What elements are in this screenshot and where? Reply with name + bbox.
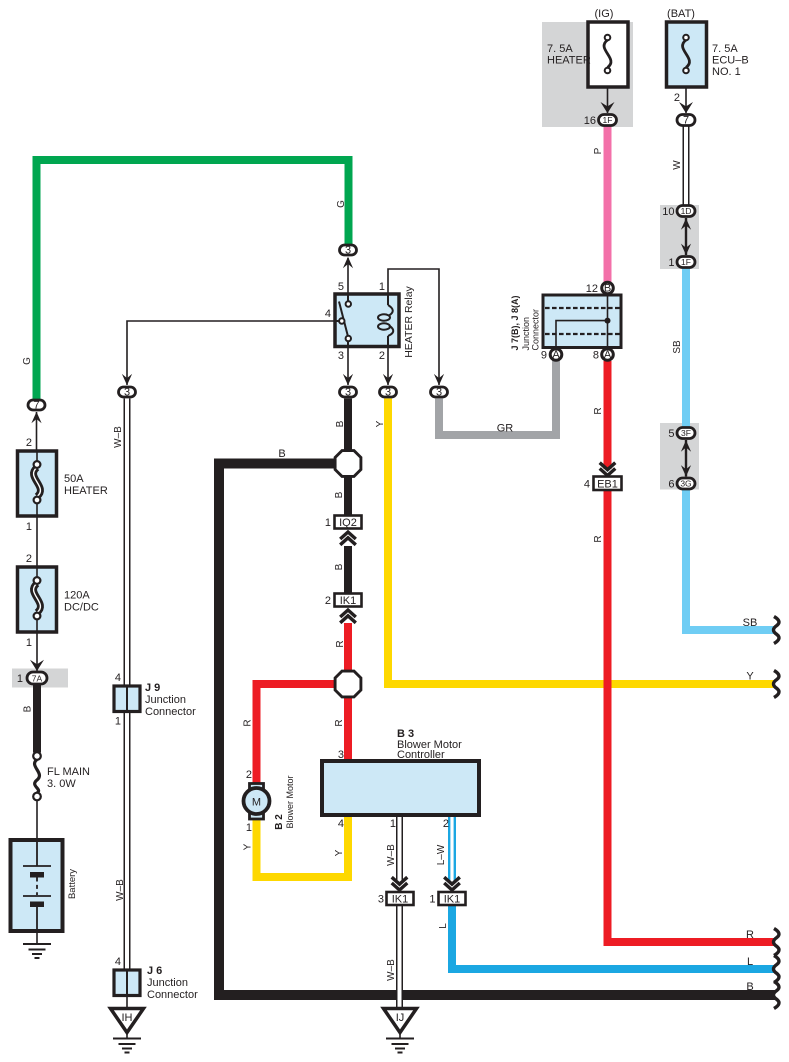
svg-text:ECU–B: ECU–B (712, 55, 749, 67)
svg-text:B: B (604, 283, 611, 295)
svg-text:1F: 1F (603, 115, 613, 125)
svg-text:A: A (552, 349, 560, 361)
svg-text:Junction: Junction (521, 317, 531, 351)
svg-text:B: B (334, 563, 345, 570)
svg-text:Junction: Junction (147, 977, 188, 989)
svg-text:120A: 120A (64, 590, 90, 602)
svg-text:1F: 1F (681, 257, 691, 267)
svg-text:Connector: Connector (145, 706, 196, 718)
svg-text:Blower Motor: Blower Motor (285, 775, 295, 828)
svg-text:FL MAIN: FL MAIN (47, 766, 90, 778)
svg-text:1: 1 (26, 521, 32, 533)
svg-text:B: B (23, 705, 34, 712)
svg-text:R: R (334, 719, 345, 726)
svg-text:L–W: L–W (436, 844, 447, 865)
svg-text:5: 5 (338, 281, 344, 293)
svg-text:2: 2 (443, 818, 449, 830)
svg-text:IQ2: IQ2 (339, 517, 357, 529)
svg-text:1: 1 (17, 673, 23, 685)
svg-text:7: 7 (683, 115, 689, 127)
svg-text:10: 10 (662, 206, 674, 218)
svg-text:R: R (746, 929, 754, 941)
svg-text:Connector: Connector (147, 989, 198, 1001)
svg-text:6: 6 (668, 479, 674, 491)
svg-text:1: 1 (429, 894, 435, 906)
svg-text:IK1: IK1 (340, 595, 357, 607)
svg-text:1: 1 (379, 281, 385, 293)
svg-text:2: 2 (26, 437, 32, 449)
svg-text:B 2: B 2 (274, 814, 285, 830)
svg-text:9: 9 (541, 350, 547, 362)
svg-text:P: P (593, 147, 604, 154)
svg-text:R: R (593, 407, 604, 414)
svg-text:SB: SB (743, 617, 758, 629)
svg-text:Battery: Battery (67, 869, 78, 899)
svg-text:Connector: Connector (531, 309, 541, 351)
svg-text:G: G (336, 200, 347, 208)
svg-text:3: 3 (345, 245, 351, 257)
svg-text:J 9: J 9 (145, 682, 160, 694)
svg-text:IK1: IK1 (444, 894, 461, 906)
svg-text:M: M (252, 797, 261, 809)
svg-text:NO. 1: NO. 1 (712, 66, 741, 78)
svg-text:3. 0W: 3. 0W (47, 778, 76, 790)
svg-text:8: 8 (593, 350, 599, 362)
svg-text:Y: Y (243, 843, 254, 850)
svg-text:3F: 3F (681, 428, 691, 438)
svg-text:3: 3 (338, 749, 344, 761)
svg-text:J 7(B), J 8(A): J 7(B), J 8(A) (510, 295, 520, 350)
svg-text:W–B: W–B (386, 959, 397, 981)
svg-text:HEATER Relay: HEATER Relay (403, 285, 415, 357)
svg-text:J 6: J 6 (147, 965, 162, 977)
svg-text:G: G (22, 357, 33, 365)
svg-text:3: 3 (124, 387, 130, 399)
svg-text:GR: GR (497, 423, 514, 435)
svg-text:16: 16 (584, 115, 596, 127)
svg-text:2: 2 (325, 595, 331, 607)
svg-text:4: 4 (584, 479, 590, 491)
svg-text:IH: IH (122, 1012, 133, 1024)
svg-text:B: B (278, 448, 285, 460)
svg-text:HEATER: HEATER (64, 485, 108, 497)
svg-text:R: R (593, 535, 604, 542)
svg-text:B: B (334, 491, 345, 498)
svg-text:3: 3 (385, 387, 391, 399)
svg-text:Y: Y (746, 671, 754, 683)
svg-text:1: 1 (390, 818, 396, 830)
svg-text:1: 1 (115, 716, 121, 728)
svg-text:Controller: Controller (397, 749, 445, 761)
svg-text:3: 3 (378, 894, 384, 906)
svg-text:3G: 3G (680, 479, 691, 489)
svg-text:5: 5 (668, 428, 674, 440)
svg-text:W–B: W–B (386, 844, 397, 866)
svg-text:4: 4 (115, 956, 121, 968)
svg-text:DC/DC: DC/DC (64, 602, 99, 614)
svg-text:3: 3 (345, 387, 351, 399)
svg-text:B: B (335, 420, 346, 427)
svg-text:L: L (747, 956, 753, 968)
svg-text:R: R (243, 719, 254, 726)
svg-text:SB: SB (672, 340, 683, 354)
svg-text:Junction: Junction (145, 694, 186, 706)
svg-text:7. 5A: 7. 5A (547, 43, 573, 55)
svg-text:4: 4 (325, 308, 331, 320)
svg-text:1D: 1D (681, 206, 692, 216)
svg-text:50A: 50A (64, 473, 84, 485)
svg-text:L: L (438, 923, 449, 929)
svg-text:B: B (746, 981, 753, 993)
svg-text:1: 1 (668, 257, 674, 269)
svg-text:2: 2 (379, 350, 385, 362)
svg-text:3: 3 (338, 350, 344, 362)
svg-text:12: 12 (586, 283, 598, 295)
svg-text:2: 2 (246, 769, 252, 781)
svg-text:R: R (335, 640, 346, 647)
svg-text:(BAT): (BAT) (667, 8, 695, 20)
svg-text:(IG): (IG) (595, 8, 614, 20)
svg-text:W: W (672, 160, 683, 170)
svg-text:7A: 7A (32, 674, 43, 684)
svg-text:4: 4 (115, 672, 121, 684)
svg-text:2: 2 (674, 92, 680, 104)
svg-text:1: 1 (246, 822, 252, 834)
svg-text:W–B: W–B (113, 426, 124, 448)
svg-text:7: 7 (33, 400, 39, 412)
svg-text:A: A (604, 349, 612, 361)
svg-text:2: 2 (26, 553, 32, 565)
svg-text:IK1: IK1 (392, 894, 409, 906)
svg-text:Y: Y (375, 420, 386, 427)
svg-text:IJ: IJ (396, 1012, 405, 1024)
svg-text:7. 5A: 7. 5A (712, 43, 738, 55)
svg-text:4: 4 (338, 818, 344, 830)
svg-text:1: 1 (26, 637, 32, 649)
svg-text:3: 3 (436, 387, 442, 399)
svg-text:HEATER: HEATER (547, 55, 591, 67)
svg-text:W–B: W–B (115, 879, 126, 901)
svg-text:Y: Y (334, 849, 345, 856)
svg-text:1: 1 (325, 517, 331, 529)
svg-text:EB1: EB1 (597, 479, 618, 491)
